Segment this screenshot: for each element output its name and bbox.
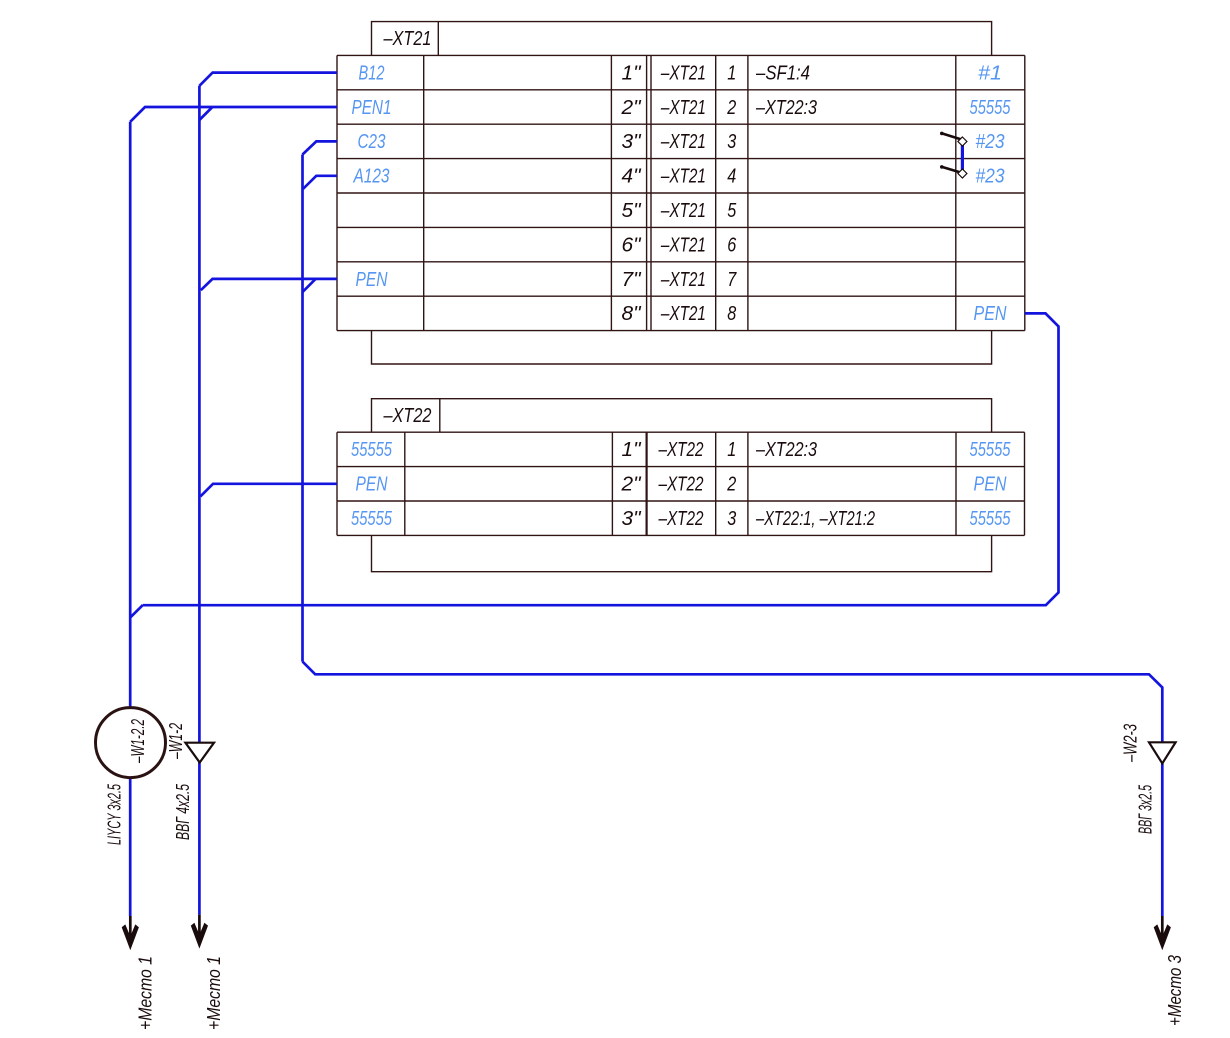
wire A123 from XT21:4 joining cable W2-3 [303, 176, 337, 189]
wire B12 from XT21:1 to cable W1-2 [199, 73, 337, 86]
junction PEN return wire to trunk W1-2.2 [130, 605, 143, 618]
cable symbol triangle -W1-2 [166, 723, 214, 763]
svg-text:PEN: PEN [356, 474, 388, 496]
destination arrow to Mesto 1 (cable W1-2.2) [122, 916, 139, 950]
svg-text:PEN1: PEN1 [352, 97, 392, 119]
svg-text:–W1-2: –W1-2 [166, 723, 186, 760]
cable symbol triangle -W2-3 [1120, 724, 1175, 763]
wire trunk W2-3 lower run to Mesto 3 [303, 662, 1163, 916]
svg-text:PEN: PEN [974, 474, 1007, 496]
svg-text:–XT22:1, –XT21:2: –XT22:1, –XT21:2 [755, 508, 875, 530]
svg-text:3": 3" [622, 131, 642, 153]
wire cable trunk -W2-3 vertical [301, 155, 304, 662]
svg-text:1: 1 [727, 62, 736, 84]
wire cable trunk -W1-2.2 vertical [129, 122, 132, 916]
XT21 header box [372, 22, 992, 56]
wire PEN from XT22:2 joining cable W1-2 [200, 484, 337, 497]
svg-text:55555: 55555 [970, 439, 1012, 461]
svg-text:#23: #23 [976, 131, 1005, 153]
svg-text:6: 6 [727, 234, 737, 256]
svg-text:–XT21: –XT21 [660, 234, 706, 256]
svg-text:+Место 1: +Место 1 [135, 956, 155, 1030]
XT21 device name column [660, 62, 706, 325]
svg-text:2: 2 [726, 474, 736, 496]
svg-text:PEN: PEN [974, 303, 1007, 325]
jumper bridge between XT21:3 and XT21:4 [940, 132, 967, 178]
svg-text:A123: A123 [353, 166, 390, 188]
XT21 right wire-name labels (blue) [970, 62, 1012, 325]
svg-text:–XT21: –XT21 [660, 97, 706, 119]
svg-text:–XT22: –XT22 [383, 405, 432, 427]
svg-text:–XT22:3: –XT22:3 [755, 97, 817, 119]
XT22 device name column [658, 439, 704, 530]
XT22 header box [372, 399, 992, 433]
svg-text:3": 3" [622, 508, 642, 530]
XT22 target designations [755, 439, 875, 530]
svg-text:8": 8" [622, 303, 642, 325]
terminal strip -XT21 table grid [337, 55, 1025, 330]
svg-text:7": 7" [622, 269, 642, 291]
svg-text:–XT21: –XT21 [660, 303, 706, 325]
svg-text:–XT21: –XT21 [660, 200, 706, 222]
svg-text:#23: #23 [976, 166, 1005, 188]
wire PEN from XT21:8 right side down and across [143, 313, 1059, 605]
svg-text:–SF1:4: –SF1:4 [755, 62, 810, 84]
XT21 bottom bracket [372, 331, 992, 364]
XT22 terminal numbers [726, 439, 736, 530]
svg-text:–XT22: –XT22 [658, 508, 704, 530]
svg-text:PEN: PEN [356, 269, 388, 291]
svg-text:–XT22:3: –XT22:3 [755, 439, 817, 461]
svg-text:–XT21: –XT21 [660, 131, 706, 153]
junction B12 trunk to PEN1 wire [199, 107, 212, 120]
svg-text:7: 7 [727, 269, 737, 291]
svg-text:–XT21: –XT21 [660, 62, 706, 84]
svg-text:–XT22: –XT22 [658, 439, 704, 461]
svg-text:–XT21: –XT21 [383, 28, 432, 50]
svg-text:–W1-2.2: –W1-2.2 [128, 719, 148, 764]
svg-text:+Место 1: +Место 1 [204, 956, 224, 1030]
svg-text:8: 8 [727, 303, 736, 325]
XT22 terminal pin numbers (left) [620, 439, 641, 530]
svg-text:55555: 55555 [970, 508, 1012, 530]
svg-text:–W2-3: –W2-3 [1120, 724, 1140, 763]
svg-text:1: 1 [727, 439, 736, 461]
junction PEN wire to trunk W2-3 [303, 279, 316, 292]
svg-text:C23: C23 [358, 131, 386, 153]
svg-text:2": 2" [620, 474, 641, 496]
svg-text:3: 3 [727, 508, 736, 530]
svg-text:–XT21: –XT21 [660, 269, 706, 291]
cable symbol circle -W1-2.2 [96, 708, 166, 778]
XT21 left wire-name labels (blue) [352, 62, 392, 290]
svg-text:2: 2 [726, 97, 736, 119]
svg-text:LIYCY 3x2.5: LIYCY 3x2.5 [104, 783, 124, 845]
wire PEN1 from XT21:2 to cable W1-2.2 [130, 107, 337, 122]
svg-text:3: 3 [727, 131, 736, 153]
svg-text:–XT22: –XT22 [658, 474, 704, 496]
svg-text:1": 1" [622, 62, 642, 84]
svg-text:55555: 55555 [351, 439, 393, 461]
destination arrow to Mesto 1 (cable W1-2) [191, 915, 208, 949]
svg-text:1": 1" [622, 439, 642, 461]
svg-text:6": 6" [622, 234, 642, 256]
svg-text:5: 5 [727, 200, 737, 222]
svg-text:4": 4" [622, 166, 642, 188]
svg-text:ВВГ 4х2.5: ВВГ 4х2.5 [173, 783, 193, 840]
svg-text:2": 2" [620, 97, 641, 119]
svg-text:55555: 55555 [970, 97, 1012, 119]
svg-text:B12: B12 [359, 62, 385, 84]
svg-text:5": 5" [622, 200, 642, 222]
wire C23 from XT21:3 to cable W2-3 [303, 141, 338, 154]
svg-text:55555: 55555 [351, 508, 393, 530]
XT22 right wire-name labels (blue) [970, 439, 1012, 530]
XT21 terminal numbers [726, 62, 737, 325]
wire cable trunk -W1-2 vertical [198, 86, 201, 915]
svg-text:–XT21: –XT21 [660, 166, 706, 188]
svg-text:ВВГ 3х2.5: ВВГ 3х2.5 [1136, 784, 1156, 834]
XT22 bottom bracket [372, 535, 992, 571]
XT22 left wire-name labels (blue) [351, 439, 393, 530]
svg-text:#1: #1 [978, 62, 1002, 84]
terminal strip -XT22 table grid [337, 432, 1025, 535]
svg-text:4: 4 [727, 166, 736, 188]
svg-text:+Место 3: +Место 3 [1165, 955, 1185, 1026]
XT21 target designations [755, 62, 817, 118]
XT21 terminal pin numbers (left) [620, 62, 641, 325]
destination arrow to Mesto 3 (cable W2-3) [1154, 916, 1171, 950]
wire PEN from XT21:7 joining cable W1-2 [201, 279, 337, 290]
